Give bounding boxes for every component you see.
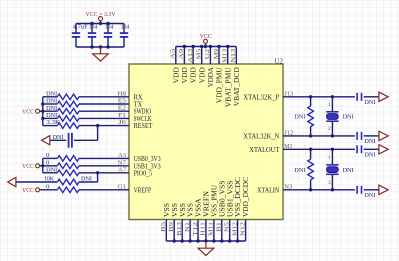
wire R10 to pin G1 (79, 189, 129, 191)
wire pin A13 stub (192, 47, 194, 65)
wire resistor drop J12 (310, 127, 312, 136)
svg-text:XTAL32K_N: XTAL32K_N (243, 131, 280, 140)
svg-text:H8: H8 (117, 91, 126, 97)
resistor R7 0 to USB1_3V3 (57, 163, 79, 169)
wire pin N12 stub (245, 220, 247, 242)
wire pin N1 stub (189, 220, 191, 242)
wire VCC to cap rail (100, 21, 102, 24)
svg-text:DNI: DNI (46, 167, 57, 173)
capacitor C1 4.7uF (72, 24, 80, 48)
capacitor DNI on N3 (357, 186, 361, 194)
wire pin M12 stub (237, 220, 239, 242)
svg-text:B13: B13 (177, 222, 183, 236)
ground arrow J13 (379, 92, 388, 101)
svg-text:B9: B9 (169, 222, 175, 232)
svg-text:XTALIN: XTALIN (257, 185, 280, 194)
wire pin U2 stub (209, 47, 211, 65)
junction top rail (191, 45, 194, 48)
svg-text:VDD_DCDC: VDD_DCDC (241, 177, 250, 217)
junction bus1 (41, 117, 44, 120)
wire bus to R3 (43, 110, 58, 112)
junction top rail (226, 45, 229, 48)
svg-text:U2: U2 (205, 49, 211, 60)
svg-text:DNI: DNI (46, 113, 57, 119)
junction bottom rail (212, 239, 215, 242)
svg-text:104: 104 (121, 24, 129, 30)
wire ground stub cap bank (100, 47, 102, 54)
wire pin J12 to cap (283, 135, 355, 137)
wire pin N3 to cap (283, 189, 355, 191)
junction bottom rail (220, 239, 223, 242)
svg-text:4.7uF: 4.7uF (73, 24, 89, 30)
svg-text:104: 104 (89, 24, 97, 30)
wire R7 to pin N7 (79, 165, 129, 167)
wire pin T12 stub (197, 220, 199, 242)
wire VCC1 to bus (40, 110, 43, 112)
wire VCC bus 2 (42, 158, 44, 172)
svg-text:M12: M12 (232, 222, 238, 236)
capacitor C3 104 (104, 24, 112, 48)
wire pin M9 stub (218, 47, 220, 65)
wire bus to R2 (43, 103, 58, 105)
capacitor DNI on M3 (357, 145, 361, 153)
wire ground stub (205, 241, 207, 248)
wire arrow to R9 (16, 181, 57, 183)
svg-text:DNI: DNI (343, 115, 354, 121)
ground arrow M3 (379, 145, 388, 154)
wire cap bank bottom rail (76, 46, 124, 48)
svg-text:VCC: VCC (22, 187, 34, 194)
power port VCC top (204, 39, 208, 43)
wire R3 to pin E2 (79, 110, 129, 112)
svg-text:N7: N7 (118, 160, 127, 166)
svg-text:J6: J6 (118, 120, 126, 126)
wire arrow to cap (50, 139, 67, 141)
svg-text:VCC: VCC (200, 33, 212, 40)
wire cap to arrow J13 (364, 96, 379, 98)
svg-text:B5: B5 (161, 222, 167, 232)
resistor R2 DNI to TX (57, 101, 79, 107)
wire bus2 to R6 (43, 157, 58, 159)
svg-text:DNI: DNI (46, 91, 57, 97)
junction bottom rail (228, 239, 231, 242)
resistor R4 DNI to SWCLK (57, 116, 79, 122)
junction bus2 (41, 164, 44, 167)
wire cap to arrow J12 (364, 135, 379, 137)
svg-text:3: 3 (328, 180, 331, 186)
junction M3 res (309, 148, 312, 151)
wire resistor drop M3 (310, 149, 312, 159)
wire pin M5 stub (201, 47, 203, 65)
ground under U2 (198, 248, 214, 255)
junction bottom rail (181, 239, 184, 242)
svg-text:T12: T12 (193, 222, 199, 236)
svg-text:U2: U2 (275, 58, 284, 66)
svg-text:0: 0 (46, 153, 49, 159)
wire R6 to pin A3 (79, 157, 129, 159)
wire bus2 to R8 (43, 172, 58, 174)
wire cap bank top rail (76, 23, 124, 25)
wire cap to corner (74, 139, 98, 141)
wire RESET down (97, 126, 99, 141)
svg-text:1: 1 (328, 102, 331, 108)
wire VCC3 to R10 (40, 189, 58, 191)
svg-text:XTAL32K_P: XTAL32K_P (243, 92, 279, 101)
wire pin N13 stub (235, 47, 237, 65)
svg-text:M9: M9 (214, 49, 220, 60)
junction bottom rail (204, 239, 207, 242)
svg-text:DNI: DNI (343, 168, 354, 174)
junction J13 res (309, 95, 312, 98)
svg-text:0: 0 (46, 184, 49, 190)
junction top rail (217, 45, 220, 48)
ground cap bank (93, 54, 109, 61)
wire cap to arrow N3 (364, 189, 379, 191)
wire pin M3 to cap (283, 148, 355, 150)
svg-text:3.3K: 3.3K (46, 120, 61, 126)
svg-text:DNI: DNI (46, 99, 57, 105)
junction bottom rail (188, 239, 191, 242)
ground arrow 10K (8, 177, 16, 186)
svg-text:VCC: VCC (22, 108, 34, 115)
junction bottom rail (236, 239, 239, 242)
svg-text:VREFP: VREFP (134, 185, 152, 194)
resistor R3 DNI to SWDIO (57, 108, 79, 114)
wire bus2 to R7 (43, 165, 58, 167)
wire R2 to pin E5 (79, 103, 129, 105)
svg-text:VDD: VDD (180, 67, 189, 84)
svg-text:DNI: DNI (294, 168, 305, 174)
capacitor DNI on J12 (357, 132, 361, 140)
svg-text:0: 0 (46, 160, 49, 166)
svg-text:B1: B1 (217, 222, 223, 232)
resistor R9 10K (57, 179, 79, 185)
svg-text:E2: E2 (118, 106, 126, 112)
wire pin A9 stub (183, 47, 185, 65)
capacitor C2 104 (88, 24, 96, 48)
svg-text:M5: M5 (197, 49, 203, 60)
junction J13 xtal (331, 95, 334, 98)
wire pin M11 stub (213, 220, 215, 242)
capacitor DNI on RESET (69, 133, 72, 148)
svg-text:N5: N5 (225, 222, 231, 232)
svg-text:DNI: DNI (294, 115, 305, 121)
crystal Y1 32k (326, 97, 338, 136)
junction top rail (209, 45, 212, 48)
junction bot rail c2 (90, 45, 93, 48)
wire bus to R4 (43, 117, 58, 119)
junction bottom rail (173, 239, 176, 242)
junction J12 res (309, 134, 312, 137)
crystal Y2 main (326, 149, 338, 190)
resistor R8 DNI to PIO0_5 (57, 170, 79, 176)
svg-text:A9: A9 (179, 49, 185, 60)
junction gnd exit (99, 45, 102, 48)
svg-text:DNI: DNI (364, 139, 375, 145)
ground arrow J12 (379, 131, 388, 140)
svg-text:PIO0_5: PIO0_5 (134, 168, 153, 177)
wire pin M13 stub (227, 47, 229, 65)
resistor DNI across main crystal (308, 159, 314, 180)
wire R4 to pin F1 (79, 117, 129, 119)
svg-text:N1: N1 (185, 222, 191, 232)
junction RESET line (96, 124, 99, 127)
wire pin A5 stub (175, 47, 177, 65)
junction N3 res (309, 188, 312, 191)
wire pin B9 stub (173, 220, 175, 242)
wire VCC2 to bus (40, 165, 43, 167)
wire R1 to pin H8 (79, 96, 129, 98)
svg-text:VDD: VDD (197, 67, 206, 84)
svg-text:M13: M13 (223, 49, 229, 63)
svg-text:2: 2 (328, 126, 331, 132)
junction top rail c2 (90, 22, 93, 25)
capacitor DNI on J13 (357, 93, 361, 101)
wire R5 to pin J6 (79, 125, 129, 127)
junction N3 xtal (331, 188, 334, 191)
junction VCC stub (204, 45, 207, 48)
ground arrow N3 (379, 185, 388, 194)
junction bot rail c3 (106, 45, 109, 48)
wire bus to R5 (43, 125, 58, 127)
wire resistor drop J13 (310, 97, 312, 106)
junction M3 xtal (331, 148, 334, 151)
wire R9 up to PIO0_5 (97, 173, 99, 182)
resistor R1 DNI to RX (57, 94, 79, 100)
wire R9 right (79, 181, 98, 183)
ground arrow RESET cap (42, 136, 50, 145)
svg-text:A3: A3 (118, 153, 126, 159)
wire VSS bottom rail (166, 240, 245, 242)
wire pin H11 stub (205, 220, 207, 242)
junction bus1 (41, 102, 44, 105)
wire pin B1 stub (221, 220, 223, 242)
wire resistor drop N3 (310, 180, 312, 190)
junction PIO0_5 line (96, 171, 99, 174)
svg-text:G1: G1 (118, 184, 127, 190)
wire pin B13 stub (181, 220, 183, 242)
junction top rail (200, 45, 203, 48)
svg-text:M11: M11 (209, 222, 215, 236)
wire cap to arrow M3 (364, 148, 379, 150)
svg-text:DNI: DNI (364, 152, 375, 158)
svg-text:RESET: RESET (134, 121, 153, 130)
svg-text:VBAT_DCD: VBAT_DCD (232, 67, 241, 107)
IC U2 body (129, 64, 283, 220)
svg-text:VCC: VCC (22, 163, 34, 170)
svg-text:A5: A5 (171, 49, 177, 60)
svg-text:H11: H11 (201, 222, 207, 236)
svg-text:VDD_PMU: VDD_PMU (215, 67, 224, 104)
junction bus1 (41, 110, 44, 113)
svg-text:104: 104 (105, 24, 113, 30)
capacitor C4 104 (120, 24, 128, 48)
junction top rail (183, 45, 186, 48)
svg-text:DNI: DNI (364, 193, 375, 199)
wire bus to R1 (43, 96, 58, 98)
wire VCC to rail (205, 43, 207, 46)
wire VDD top rail (176, 46, 237, 48)
svg-text:1: 1 (328, 155, 331, 161)
resistor R6 0 to USB0_3V3 (57, 156, 79, 162)
wire pin J13 to cap (283, 96, 355, 98)
svg-text:A13: A13 (188, 49, 194, 63)
resistor R10 0 to VREFP (57, 187, 79, 193)
junction vcc entry (99, 22, 102, 25)
svg-text:A7: A7 (118, 167, 126, 173)
svg-text:E5: E5 (118, 99, 126, 105)
svg-text:N12: N12 (240, 222, 246, 236)
wire VCC bus 1 (42, 97, 44, 126)
resistor DNI across 32k crystal (308, 106, 314, 127)
wire pin N5 stub (229, 220, 231, 242)
junction J12 xtal (331, 134, 334, 137)
svg-text:F1: F1 (118, 113, 126, 119)
svg-text:DNI: DNI (364, 100, 375, 106)
junction top rail c3 (106, 22, 109, 25)
svg-text:DNI: DNI (46, 106, 57, 112)
wire R8 to pin A7 (79, 172, 129, 174)
resistor R5 3.3K to RESET (57, 123, 79, 129)
junction bottom rail (196, 239, 199, 242)
wire pin B5 stub (165, 220, 167, 242)
svg-text:10K: 10K (44, 176, 54, 182)
svg-text:XTALOUT: XTALOUT (249, 145, 279, 154)
svg-text:N13: N13 (231, 49, 237, 63)
